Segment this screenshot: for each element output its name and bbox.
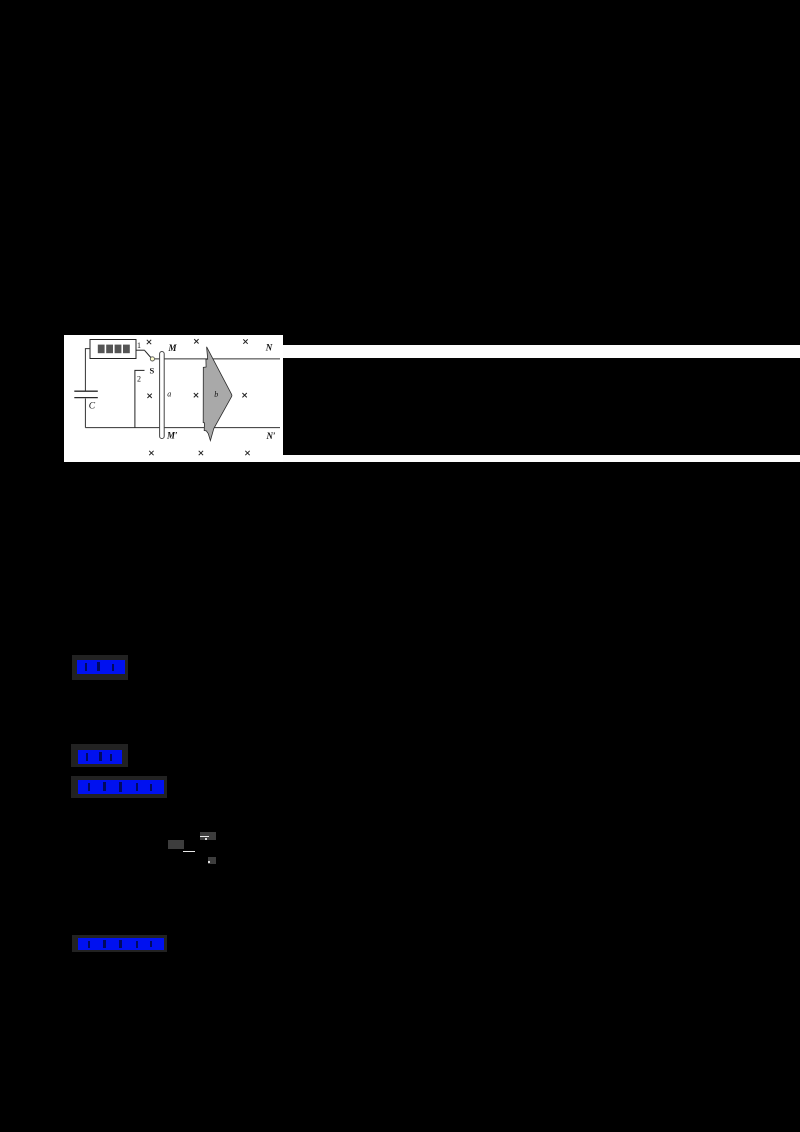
field cross mid row 1 <box>147 394 151 398</box>
field cross bottom row 3 <box>245 451 249 455</box>
svg-text:N: N <box>265 343 273 353</box>
svg-text:M′: M′ <box>166 430 178 440</box>
field cross mid row 3 <box>242 393 246 397</box>
svg-text:C: C <box>89 402 96 412</box>
wire top rail MN <box>155 358 280 360</box>
switch contact 2 wire <box>135 370 145 427</box>
svg-text:a: a <box>167 389 171 398</box>
svg-text:S: S <box>150 365 155 375</box>
field cross bottom row 1 <box>149 451 153 455</box>
answer tag 1 halo <box>72 655 128 680</box>
field cross top row 1 <box>147 340 151 344</box>
field cross bottom row 2 <box>199 451 203 455</box>
field cross mid row 2 <box>194 393 198 397</box>
figure white background box <box>64 335 283 462</box>
switch S pivot <box>150 357 154 361</box>
svg-text:b: b <box>214 390 218 399</box>
small formula figure <box>168 840 184 849</box>
answer tag 4 halo <box>72 935 167 952</box>
switch contact 1 stub <box>136 349 145 351</box>
switch S lever <box>145 350 151 357</box>
wire bottom rail M'N' <box>85 427 280 429</box>
control box (调控系统) <box>90 340 136 359</box>
answer tag 1 blue <box>77 660 125 674</box>
projectile b <box>203 347 232 441</box>
field cross top row 3 <box>243 339 247 343</box>
svg-text:N′: N′ <box>266 431 276 441</box>
capacitor C <box>74 391 98 397</box>
answer tag 2 blue <box>78 750 122 764</box>
answer tag 4 blue <box>78 938 164 950</box>
bottom white strip <box>283 455 800 462</box>
blue tag glyph marks <box>85 663 87 671</box>
svg-text:1: 1 <box>137 341 141 350</box>
top white strip <box>283 345 800 358</box>
field cross top row 2 <box>194 339 198 343</box>
svg-text:M: M <box>168 343 178 353</box>
wire capacitor top plate to control box <box>85 349 90 391</box>
circuit figure svg <box>64 334 283 463</box>
answer tag 3 halo <box>71 776 167 798</box>
answer tag 2 halo <box>71 744 128 767</box>
armature bar a <box>160 352 165 439</box>
svg-text:2: 2 <box>137 375 141 384</box>
answer tag 3 blue <box>78 780 164 794</box>
control box glyph blocks <box>98 345 130 354</box>
wire capacitor bottom plate down <box>84 399 86 428</box>
